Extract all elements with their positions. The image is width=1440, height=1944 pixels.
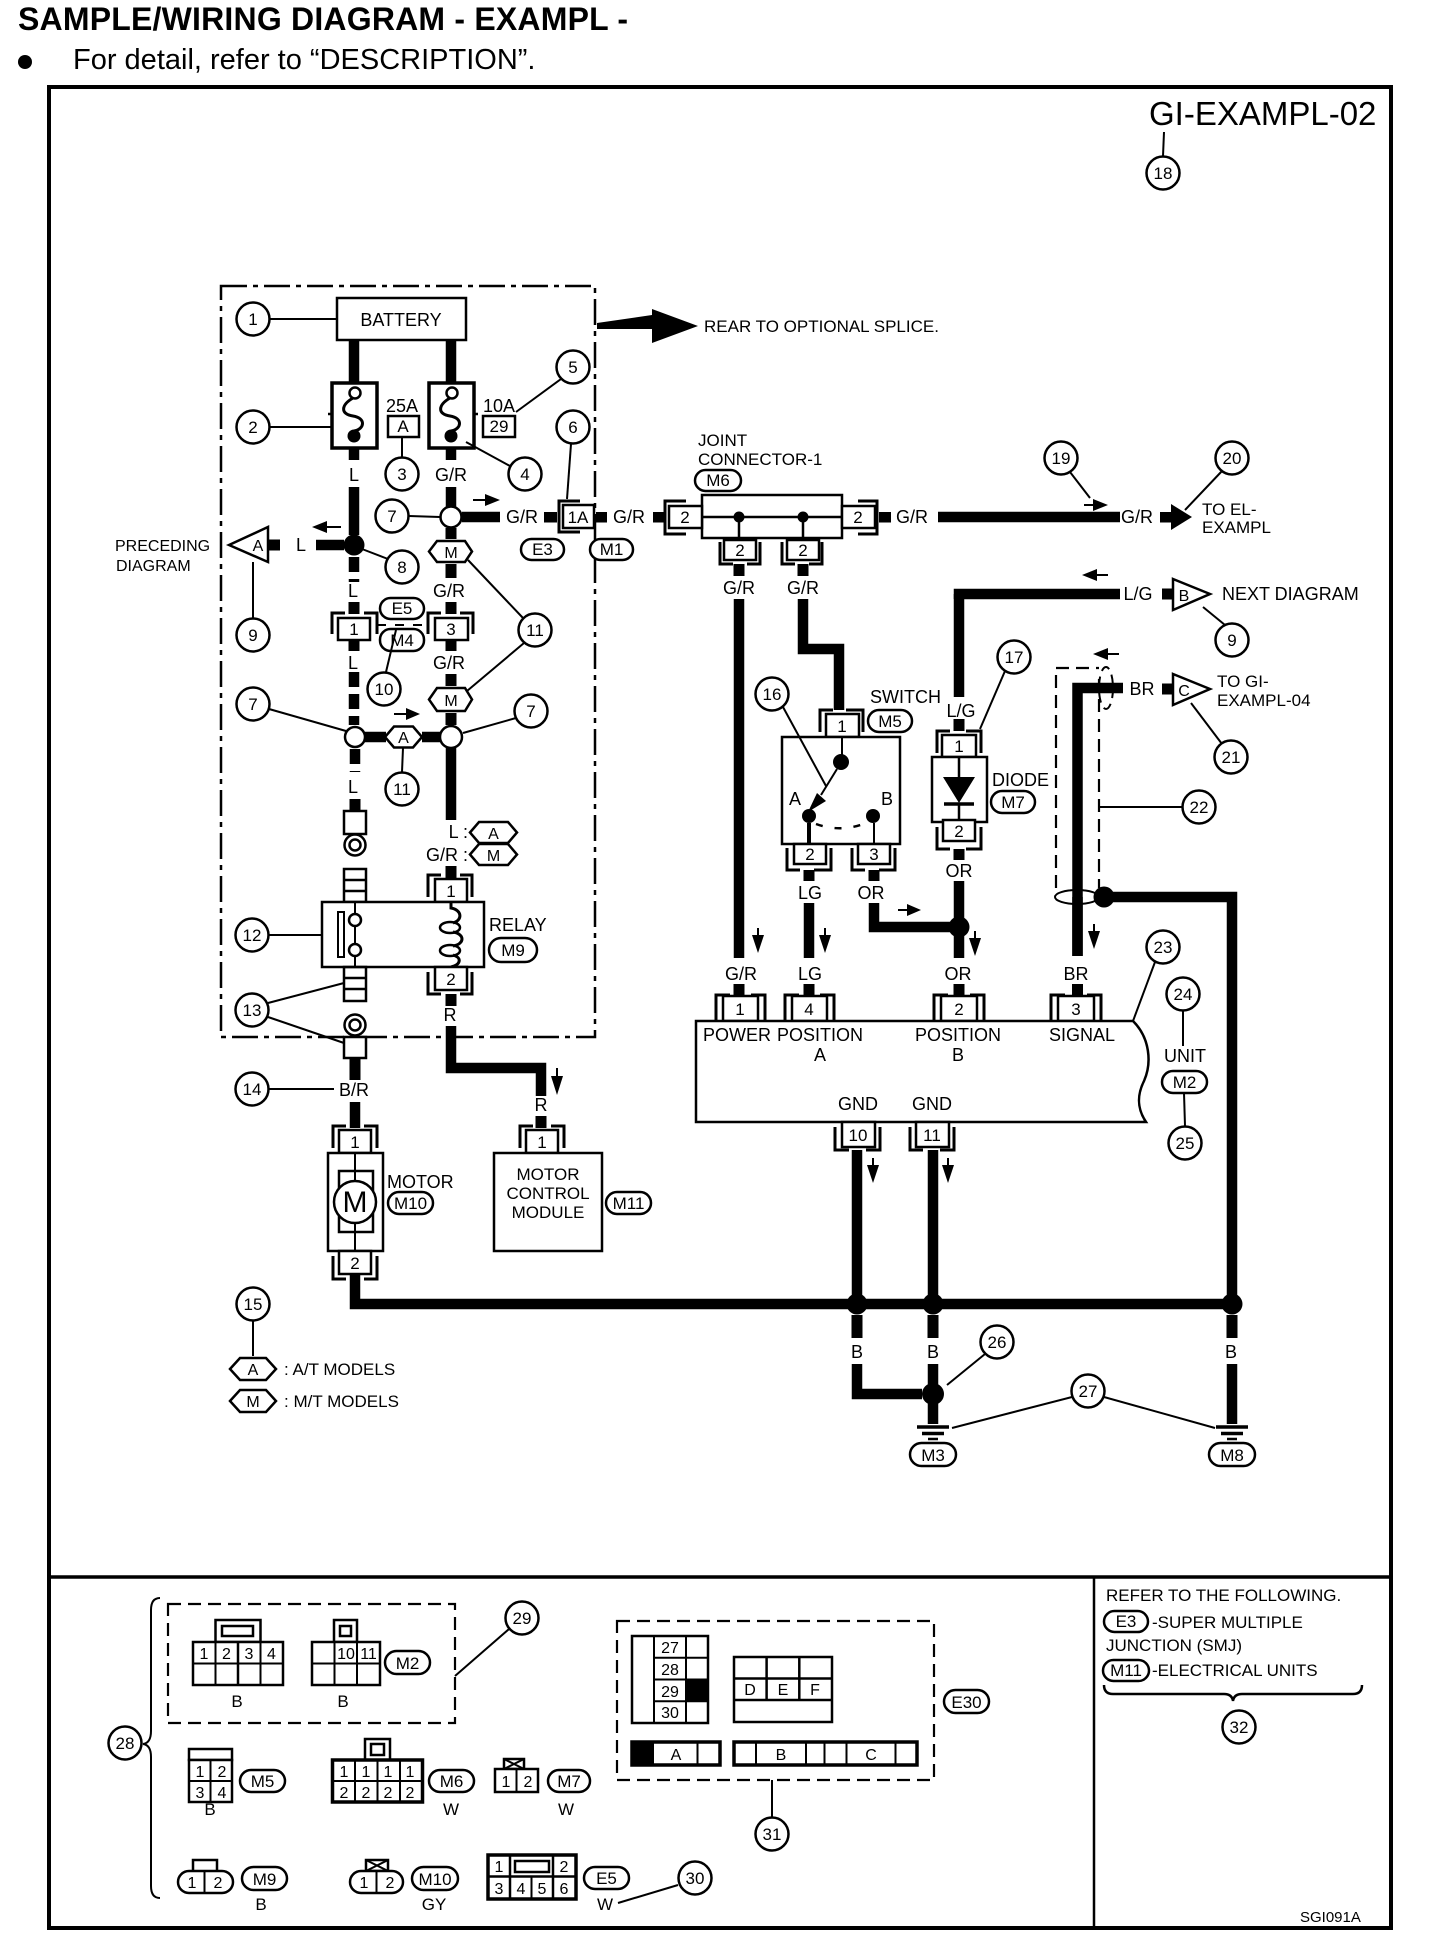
- circled 10: [368, 673, 401, 706]
- switch contact B dot: [866, 809, 880, 823]
- svg-text:G/R: G/R: [613, 507, 645, 527]
- svg-text:B: B: [337, 1692, 348, 1711]
- oval label M11 (refer): [1103, 1660, 1149, 1681]
- svg-text:3: 3: [397, 465, 406, 484]
- leader dashed box to circled 22: [1099, 806, 1182, 808]
- long G/R wire to right: [938, 512, 1120, 523]
- svg-text:M7: M7: [557, 1772, 581, 1791]
- circled 32: [1223, 1711, 1256, 1744]
- switch pin 3 box: [858, 844, 890, 864]
- terminal lug box (lower): [344, 1037, 366, 1058]
- wire L to junction: [349, 487, 360, 535]
- relay pin 2 box: [435, 967, 467, 990]
- svg-text:G/R: G/R: [433, 653, 465, 673]
- stub above box 1: [349, 602, 360, 614]
- terminal lug box (upper): [344, 811, 366, 834]
- svg-text:11: 11: [526, 621, 544, 640]
- leader 29 to dashed box: [455, 1629, 509, 1676]
- svg-text:E5: E5: [596, 1869, 617, 1888]
- circled 12: [236, 919, 269, 952]
- svg-text:SWITCH: SWITCH: [870, 687, 941, 707]
- svg-text:A: A: [248, 1362, 259, 1379]
- svg-text:-ELECTRICAL UNITS: -ELECTRICAL UNITS: [1152, 1661, 1318, 1680]
- wire battery left terminal: [349, 340, 360, 383]
- svg-text:13: 13: [243, 1001, 262, 1020]
- wire BR to unit pin: [1072, 897, 1083, 956]
- fuse code box 29: [483, 416, 515, 437]
- svg-text:29: 29: [490, 417, 509, 436]
- svg-text:2: 2: [853, 508, 862, 527]
- splice node (open) at G/R: [441, 507, 462, 528]
- stub into unit pin 4: [804, 984, 815, 996]
- wire B/R to motor: [350, 1102, 361, 1128]
- unit pin 1 bracket: [716, 995, 765, 1021]
- leader 23 to unit: [1133, 962, 1155, 1021]
- wire G/R-2 elbow into switch: [803, 599, 839, 710]
- junction dot at M3: [922, 1383, 944, 1405]
- svg-text:2: 2: [560, 1859, 569, 1876]
- svg-text:M9: M9: [253, 1870, 277, 1889]
- ring terminal (lower): [345, 1015, 366, 1036]
- joint right pin bracket: [858, 501, 877, 534]
- svg-text:B: B: [231, 1692, 242, 1711]
- svg-text:1: 1: [350, 1133, 359, 1152]
- stub into MCM pin: [536, 1116, 547, 1128]
- ladder stack above relay: [344, 869, 366, 902]
- oval label M4: [380, 629, 424, 651]
- flow triangle B (next diagram): [1173, 579, 1210, 610]
- oval label M8: [1209, 1443, 1255, 1466]
- circled 22: [1183, 791, 1216, 824]
- svg-text:4: 4: [218, 1785, 227, 1802]
- diode pin 2 box: [943, 820, 975, 841]
- circled 6: [557, 411, 590, 444]
- leader 2 to fuse: [270, 426, 332, 428]
- circled 19: [1045, 442, 1078, 475]
- leader 7 to L node: [269, 709, 346, 731]
- svg-text:19: 19: [1052, 449, 1071, 468]
- joint bus dot 2: [798, 512, 809, 523]
- svg-text:22: 22: [1190, 798, 1209, 817]
- svg-text:M6: M6: [706, 471, 730, 490]
- svg-text:M: M: [246, 1394, 259, 1411]
- joint connector bus line: [702, 516, 842, 519]
- svg-text:A: A: [814, 1045, 826, 1065]
- leader 13 to ladder: [268, 983, 344, 1003]
- unit pin 2 bracket: [934, 995, 984, 1021]
- svg-text:M9: M9: [501, 941, 525, 960]
- svg-text:M11: M11: [1110, 1661, 1142, 1680]
- svg-text:B/R: B/R: [339, 1080, 369, 1100]
- in-line connector box 3 bracket: [428, 613, 473, 634]
- unit pin 10 box: [842, 1122, 875, 1147]
- circled 17: [998, 641, 1031, 674]
- leader W to circled 30: [618, 1885, 678, 1903]
- wire G/R below fuse F2: [446, 448, 457, 460]
- svg-text:2: 2: [680, 508, 689, 527]
- leader 14 to B/R: [269, 1088, 334, 1090]
- svg-text:1: 1: [384, 1764, 393, 1781]
- circled 5: [557, 351, 590, 384]
- svg-text:18: 18: [1154, 164, 1173, 183]
- svg-text:M: M: [487, 848, 500, 865]
- circled 25: [1169, 1127, 1202, 1160]
- flow triangle A (preceding diagram): [229, 527, 268, 562]
- svg-text:4: 4: [804, 1000, 813, 1019]
- circled 8: [386, 551, 419, 584]
- legend hexagon M: [470, 844, 517, 865]
- strip connector B C: [734, 1742, 917, 1765]
- ground bus wire from motor: [355, 1274, 1232, 1304]
- wire G/R to splice node: [446, 487, 457, 507]
- switch pin 1 bracket: [820, 710, 863, 732]
- svg-text:M8: M8: [1220, 1446, 1244, 1465]
- svg-text:M3: M3: [921, 1446, 945, 1465]
- leader 16 into switch: [783, 707, 826, 786]
- wire dashed L (junction8 to connector): [349, 557, 360, 582]
- stub node to hexagon M: [446, 528, 457, 539]
- diode M7 body: [932, 757, 987, 822]
- svg-text:2: 2: [954, 822, 963, 841]
- leader 20 to arrow: [1185, 471, 1222, 510]
- svg-text:CONTROL: CONTROL: [506, 1184, 589, 1203]
- direction arrow right (G/R to 1A): [473, 494, 500, 506]
- svg-text:1: 1: [446, 882, 455, 901]
- wire dashed L below node: [350, 749, 361, 772]
- switch contact B lead: [873, 823, 875, 844]
- direction arrow down LG: [819, 928, 831, 953]
- leader hexagon A to circled 11: [402, 748, 403, 772]
- connector 1A bracket: [559, 501, 580, 532]
- svg-text:M: M: [444, 545, 457, 562]
- unit pin 3 box: [1058, 996, 1094, 1021]
- relay contact circles: [349, 914, 361, 926]
- svg-text:1: 1: [495, 1859, 504, 1876]
- svg-text:RELAY: RELAY: [489, 915, 547, 935]
- motor control module pin 1 bracket: [520, 1126, 564, 1148]
- wire node to hexagon A: [365, 732, 386, 743]
- circled 7 (G/R splice): [376, 500, 409, 533]
- L/G wire down to diode: [954, 594, 965, 697]
- legend hexagon M (M/T models): [230, 1390, 276, 1412]
- leader M4 to circled 10: [386, 630, 396, 672]
- svg-text:LG: LG: [798, 964, 822, 984]
- svg-text:5: 5: [568, 358, 577, 377]
- connector face M5: [189, 1749, 232, 1802]
- svg-text:G/R: G/R: [506, 507, 538, 527]
- svg-text:JOINT: JOINT: [698, 431, 747, 450]
- direction arrow left (L to preceding): [312, 521, 341, 533]
- dashed group box M2 connectors: [168, 1604, 455, 1723]
- svg-text:6: 6: [560, 1881, 569, 1898]
- hexagon M on G/R (M/T models): [429, 541, 472, 562]
- leader M2 to circled 25: [1184, 1093, 1185, 1126]
- circled 31: [756, 1818, 789, 1851]
- svg-text:DIAGRAM: DIAGRAM: [116, 558, 191, 575]
- svg-text:1: 1: [248, 310, 257, 329]
- svg-text:2: 2: [350, 1254, 359, 1273]
- direction arrow down OR: [969, 931, 981, 956]
- switch pin 2 bracket: [787, 848, 831, 870]
- grommet ellipse at dashed box bottom: [1055, 890, 1099, 904]
- stub below joint pin 2: [798, 564, 809, 576]
- in-line connector box 1 bracket: [332, 613, 377, 634]
- unit M2 body with wavy right edge: [696, 1021, 1149, 1122]
- stub above diode: [954, 719, 965, 731]
- wire OR switch elbow to junction: [874, 903, 953, 927]
- relay contact bar: [338, 912, 344, 957]
- svg-text:BR: BR: [1063, 964, 1088, 984]
- svg-text:2: 2: [406, 1785, 415, 1802]
- svg-text:OR: OR: [858, 883, 885, 903]
- wire G/R-1 down to unit: [734, 599, 745, 958]
- svg-text:B: B: [204, 1800, 215, 1819]
- svg-text:REFER TO THE FOLLOWING.: REFER TO THE FOLLOWING.: [1106, 1586, 1341, 1605]
- svg-text:C: C: [1178, 683, 1190, 700]
- svg-text:DIODE: DIODE: [992, 770, 1049, 790]
- relay contact wire: [354, 902, 356, 967]
- wire OR diode to unit: [954, 881, 965, 958]
- svg-text:W: W: [558, 1800, 574, 1819]
- leader 8 to junction: [362, 549, 388, 559]
- svg-text:D: D: [744, 1682, 756, 1699]
- relay coil: [440, 902, 462, 967]
- svg-text:E5: E5: [392, 599, 413, 618]
- svg-text:14: 14: [243, 1080, 262, 1099]
- stub below switch pin 2: [804, 870, 815, 881]
- motor internal wire: [354, 1153, 356, 1251]
- unit pin 2 box: [941, 996, 977, 1021]
- motor pin 2 box: [339, 1251, 371, 1274]
- joint bus branch line 1: [738, 517, 741, 538]
- strip connector A: [632, 1742, 720, 1765]
- svg-text:29: 29: [661, 1684, 679, 1701]
- open node G/R row737: [440, 726, 462, 748]
- leader C to circled 21: [1191, 703, 1222, 744]
- svg-text:27: 27: [661, 1640, 679, 1657]
- dash-dot harness box: [221, 286, 595, 1037]
- frame divider horizontal: [49, 1575, 1391, 1579]
- relay M9 body: [322, 902, 484, 967]
- stub below joint pin 1: [734, 564, 745, 576]
- svg-text:B: B: [927, 1342, 939, 1362]
- svg-text:30: 30: [661, 1705, 679, 1722]
- svg-text:M1: M1: [600, 540, 624, 559]
- svg-text:2: 2: [446, 970, 455, 989]
- svg-text:1: 1: [735, 1000, 744, 1019]
- svg-text:21: 21: [1222, 748, 1241, 767]
- svg-text:EXAMPL-04: EXAMPL-04: [1217, 691, 1311, 710]
- svg-text:: A/T MODELS: : A/T MODELS: [284, 1360, 395, 1379]
- svg-text:GND: GND: [838, 1094, 878, 1114]
- svg-text:11: 11: [360, 1646, 377, 1663]
- svg-text:SAMPLE/WIRING DIAGRAM - EXAMPL: SAMPLE/WIRING DIAGRAM - EXAMPL -: [18, 1, 628, 37]
- svg-text:L: L: [349, 465, 359, 485]
- svg-text:G/R: G/R: [787, 578, 819, 598]
- stub below hexagon M2: [446, 713, 457, 725]
- svg-text:A: A: [671, 1747, 682, 1764]
- leader 12 to relay: [269, 934, 322, 936]
- svg-text:1: 1: [537, 1133, 546, 1152]
- leader 7 to G/R node: [463, 718, 516, 733]
- in-line connector box 3: [435, 618, 468, 640]
- svg-text:11: 11: [393, 780, 411, 799]
- leader 26 to junction: [947, 1354, 985, 1385]
- leader 27 to M8: [1104, 1397, 1215, 1428]
- connector 1A box: [563, 505, 594, 528]
- svg-text:28: 28: [116, 1734, 135, 1753]
- svg-text:3: 3: [245, 1646, 254, 1663]
- svg-text:G/R: G/R: [1121, 507, 1153, 527]
- connector face M9: [178, 1871, 233, 1893]
- joint connector body: [702, 495, 842, 538]
- svg-text:L: L: [348, 777, 358, 797]
- oval label M10: [388, 1192, 433, 1214]
- joint bottom pin 2 bracket: [782, 542, 822, 564]
- connector face M2-a tab: [216, 1620, 261, 1642]
- svg-text:C: C: [865, 1747, 877, 1764]
- svg-text:1: 1: [340, 1764, 349, 1781]
- stub above terminal: [350, 799, 361, 812]
- leader to circled 18: [1163, 132, 1164, 156]
- leader 17 to diode pin: [980, 671, 1005, 729]
- stub at triangle A: [268, 540, 280, 551]
- ladder stack below relay: [344, 967, 366, 1001]
- joint bottom pin 1 bracket: [720, 542, 760, 564]
- svg-text:B: B: [851, 1342, 863, 1362]
- svg-text:L/G: L/G: [946, 701, 975, 721]
- svg-text:2: 2: [954, 1000, 963, 1019]
- svg-text:M2: M2: [1173, 1073, 1197, 1092]
- direction arrow right on OR: [898, 904, 921, 916]
- switch throw arc (dashed): [816, 823, 866, 828]
- svg-text:4: 4: [520, 465, 529, 484]
- svg-text:M5: M5: [878, 712, 902, 731]
- svg-text:25A: 25A: [386, 396, 418, 416]
- svg-text:BR: BR: [1129, 679, 1154, 699]
- svg-text:16: 16: [763, 685, 782, 704]
- open node L row737: [345, 727, 365, 747]
- stub below bus-left: [852, 1315, 863, 1338]
- legend hexagon A: [470, 822, 517, 843]
- svg-text:REAR TO OPTIONAL SPLICE.: REAR TO OPTIONAL SPLICE.: [704, 317, 939, 336]
- leader from A box to circled 3: [401, 437, 403, 458]
- dashed link between box1 and box3: [377, 624, 428, 626]
- switch M5 body: [782, 737, 900, 844]
- svg-text:M: M: [343, 1186, 368, 1219]
- svg-text:3: 3: [1071, 1000, 1080, 1019]
- frame divider vertical (bottom panel): [1093, 1577, 1096, 1928]
- motor M10 body: [328, 1153, 383, 1251]
- svg-text:10: 10: [375, 680, 394, 699]
- svg-text:3: 3: [196, 1785, 205, 1802]
- stub below bus-mid: [928, 1315, 939, 1338]
- circled 21: [1215, 741, 1248, 774]
- dashed group box E30: [617, 1621, 934, 1780]
- stub below hexagon M: [446, 564, 457, 578]
- svg-text:12: 12: [243, 926, 262, 945]
- circled 9 right: [1216, 624, 1249, 657]
- fuse block grid D E F: [734, 1657, 832, 1722]
- svg-text:G/R: G/R: [723, 578, 755, 598]
- svg-text:G/R: G/R: [896, 507, 928, 527]
- junction dot BR branch: [1094, 887, 1115, 908]
- svg-text:2: 2: [805, 845, 814, 864]
- svg-text:UNIT: UNIT: [1164, 1046, 1206, 1066]
- diode pin 1 box: [942, 735, 976, 757]
- direction arrow right above hexagon A: [394, 708, 420, 720]
- circled 28: [109, 1727, 142, 1760]
- svg-text:1: 1: [200, 1646, 209, 1663]
- svg-text:W: W: [443, 1800, 459, 1819]
- svg-text:15: 15: [244, 1295, 263, 1314]
- stub into unit pin 1: [734, 984, 745, 996]
- flow triangle C (to GI-EXAMPL-04): [1173, 674, 1210, 705]
- svg-text:CONNECTOR-1: CONNECTOR-1: [698, 450, 822, 469]
- oval label E3 (refer): [1104, 1611, 1148, 1632]
- circled 23: [1147, 931, 1180, 964]
- flow arrow to EL-EXAMPL: [1160, 504, 1192, 530]
- joint right pin box: [842, 506, 875, 528]
- circled 16: [756, 678, 789, 711]
- svg-text:M10: M10: [394, 1194, 427, 1213]
- svg-text:G/R: G/R: [725, 964, 757, 984]
- svg-text:2: 2: [222, 1646, 231, 1663]
- svg-text:B: B: [881, 789, 893, 809]
- svg-text:23: 23: [1154, 938, 1173, 957]
- stub below switch pin 3: [869, 870, 880, 881]
- unit pin 3 bracket: [1051, 995, 1101, 1021]
- wire G/R node to relay: [446, 748, 457, 820]
- svg-text:1: 1: [837, 717, 846, 736]
- wire B right to ground: [1227, 1364, 1238, 1424]
- svg-text:A: A: [398, 730, 409, 747]
- svg-text:TO EL-: TO EL-: [1202, 500, 1256, 519]
- ring terminal (upper): [345, 835, 366, 856]
- leader B to circled 9: [1203, 607, 1225, 625]
- svg-text:L: L: [348, 581, 358, 601]
- svg-text:2: 2: [362, 1785, 371, 1802]
- oval label M9 (face): [242, 1867, 287, 1890]
- ground symbol M8: [1216, 1427, 1248, 1439]
- oval label E5 (face): [584, 1867, 629, 1889]
- oval label M6: [695, 470, 741, 491]
- svg-text:2: 2: [214, 1875, 223, 1892]
- junction dot bus-right: [1222, 1294, 1243, 1315]
- svg-text:E: E: [778, 1682, 789, 1699]
- svg-text:M5: M5: [251, 1772, 275, 1791]
- svg-text:1: 1: [349, 620, 358, 639]
- circled 18: [1147, 157, 1180, 190]
- circled 2: [237, 411, 270, 444]
- svg-text:3: 3: [495, 1881, 504, 1898]
- oval label E30: [944, 1690, 989, 1713]
- svg-text:1: 1: [362, 1764, 371, 1781]
- connector face M6 tab: [365, 1739, 390, 1760]
- legend hexagon A (A/T models): [230, 1358, 276, 1380]
- svg-text:1A: 1A: [568, 508, 589, 527]
- wire LG down to unit: [804, 903, 815, 958]
- svg-text:2: 2: [386, 1875, 395, 1892]
- svg-text:L/G: L/G: [1123, 584, 1152, 604]
- svg-text:SIGNAL: SIGNAL: [1049, 1025, 1115, 1045]
- joint bottom pin 1 box: [724, 540, 756, 560]
- svg-text:EXAMPL: EXAMPL: [1202, 518, 1271, 537]
- leader 7 to node: [409, 516, 440, 517]
- switch pin 3 bracket: [852, 848, 895, 870]
- svg-text:For detail, refer to “DESCRIPT: For detail, refer to “DESCRIPTION”.: [73, 44, 536, 76]
- svg-text:A: A: [397, 417, 409, 436]
